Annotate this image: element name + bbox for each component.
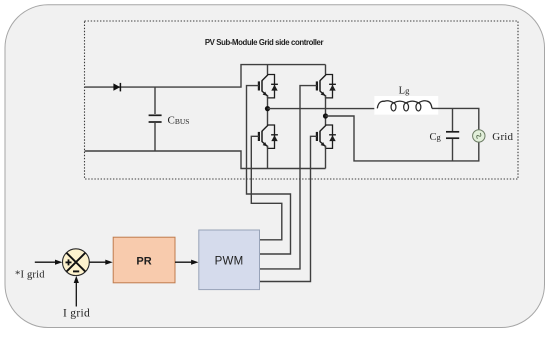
- wire: phase output B return to grid bottom: [326, 116, 479, 161]
- wire: gate drive 4 (PWM to Q4 gate): [260, 136, 317, 281]
- source Grid (AC source circle): [473, 130, 485, 142]
- arrow: summing junction to PR: [89, 261, 107, 263]
- svg-text:PR: PR: [136, 256, 151, 268]
- arrow: reference input: [35, 261, 57, 263]
- svg-text:*I grid: *I grid: [15, 270, 45, 281]
- plus sign: [66, 261, 72, 263]
- block PWM: [199, 230, 260, 290]
- transistor Q1 (top-left IGBT with antiparallel diode): [259, 75, 278, 98]
- wire: gate drive 2 (PWM to Q1 gate): [247, 86, 291, 254]
- transistor Q3 (top-right IGBT with antiparallel diode): [325, 65, 327, 75]
- diode D1 on input bus: [113, 83, 120, 90]
- arrow: measured I grid feedback: [75, 282, 77, 307]
- svg-text:I grid: I grid: [63, 308, 90, 320]
- wire: Q4 emitter to bottom rail: [325, 146, 327, 169]
- inductor Lg white backing: [374, 96, 438, 115]
- block PR: [113, 237, 175, 283]
- node B (right leg output junction): [323, 113, 328, 118]
- capacitor CBUS: [149, 87, 162, 151]
- capacitor Cg: [446, 108, 459, 160]
- summing junction: [63, 249, 90, 276]
- minus sign: [73, 270, 79, 272]
- svg-text:Cg: Cg: [430, 132, 442, 143]
- wire: right leg midpoint: [325, 96, 327, 126]
- wire: left leg collector stub: [267, 65, 269, 75]
- wire: bottom DC bus: [85, 151, 326, 169]
- wire: top DC bus: [85, 65, 326, 88]
- arrow: PR to PWM: [175, 261, 193, 263]
- svg-text:Lg: Lg: [399, 86, 410, 97]
- wire: gate drive 1 (PWM to Q2 gate): [251, 136, 281, 240]
- wire: Q2 emitter to bottom rail: [267, 146, 269, 169]
- inductor Lg coil: [377, 101, 432, 109]
- wire: gate drive 3 (PWM to Q3 gate): [260, 86, 317, 269]
- svg-text:PV Sub-Module Grid side contro: PV Sub-Module Grid side controller: [205, 38, 324, 47]
- svg-text:PWM: PWM: [215, 256, 244, 268]
- transistor Q4 (bottom-right IGBT with antiparallel diode): [317, 125, 336, 148]
- svg-text:CBUS: CBUS: [168, 115, 190, 127]
- controller boundary (dashed box): [85, 21, 519, 179]
- transistor Q2 (bottom-left IGBT with antiparallel diode): [259, 125, 278, 148]
- svg-text:Grid: Grid: [492, 131, 513, 143]
- node A (left leg output junction): [265, 106, 270, 111]
- wire: phase output A to inductor: [268, 108, 378, 110]
- wire: inductor to grid top: [432, 108, 479, 129]
- wire: left leg midpoint: [267, 96, 269, 126]
